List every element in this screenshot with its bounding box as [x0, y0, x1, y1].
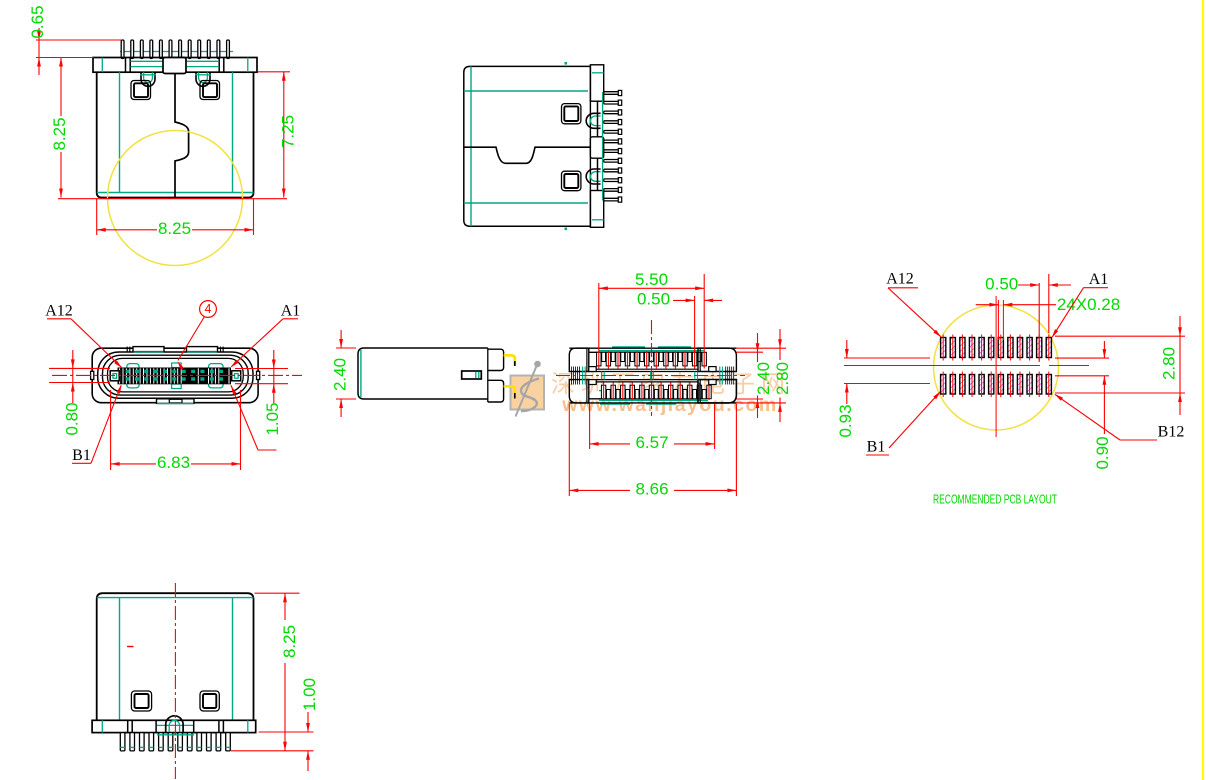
svg-text:4: 4: [205, 302, 212, 316]
svg-text:8.66: 8.66: [635, 480, 668, 499]
rear view: top teal edge tabs: [600, 347, 691, 404]
rear view: left housing block: [569, 348, 596, 403]
top view: yellow construction circle: [108, 131, 243, 266]
top view: center seam line with latch notch: [175, 74, 189, 198]
dimension 2.80 right of rear view: [737, 329, 792, 422]
svg-text:2.80: 2.80: [1159, 347, 1178, 380]
front view: top mounting tabs: [127, 347, 223, 352]
pcb layout: B-row pads (hatched): [941, 372, 1052, 398]
svg-text:7.25: 7.25: [278, 115, 297, 148]
dimension 1.00 right of bottom view: [259, 678, 319, 771]
pcb layout: A-row pads (hatched): [941, 335, 1052, 361]
dimension 8.25 (body height) left of top view: [50, 58, 69, 198]
dimension 0.65 (pin length) left of top view: [28, 5, 121, 75]
dimension 6.83 below front view: [111, 390, 241, 472]
dimension 7.25 right of top view: [258, 72, 298, 198]
top view: shell body outline: [97, 72, 254, 197]
rear view: right housing block: [698, 348, 736, 403]
svg-text:RECOMMENDED PCB LAYOUT: RECOMMENDED PCB LAYOUT: [933, 491, 1057, 506]
top view: left U-latch: [140, 72, 156, 86]
dimension 0.50 above rear view: [637, 290, 722, 352]
svg-text:24X0.28: 24X0.28: [1057, 295, 1120, 314]
pcb label A12 with leader: [886, 271, 941, 338]
rotated top view: teal corner dots: [565, 62, 568, 230]
rear view: red center lines: [556, 320, 745, 416]
top view: teal line through pins: [120, 51, 233, 53]
svg-text:A1: A1: [1089, 271, 1109, 288]
svg-text:B1: B1: [72, 447, 91, 464]
pcb layout: yellow component circle: [934, 305, 1059, 430]
label B1 with leader: [72, 385, 122, 465]
side view: yellow SMT leg bottom: [504, 386, 515, 398]
rear view: bottom comb rail and pins: [569, 383, 736, 403]
svg-text:1.05: 1.05: [263, 402, 282, 435]
pcb layout: red center lines: [844, 296, 1089, 437]
rotated top view: 12 solder pins on right: [604, 90, 622, 202]
rotated top view: right strip column with tabs: [590, 65, 603, 228]
svg-text:8.25: 8.25: [158, 219, 191, 238]
watermark pen stick: [516, 361, 541, 416]
front view: receptacle pin field: [118, 368, 232, 385]
top view: right contact window: [200, 81, 220, 100]
watermark company logo square: [511, 376, 545, 412]
side view: latch detail block: [462, 371, 482, 379]
svg-text:0.65: 0.65: [28, 5, 47, 38]
svg-text:2.80: 2.80: [773, 362, 792, 395]
dimension 8.66 below rear view: [569, 404, 736, 499]
svg-text:0.80: 0.80: [62, 402, 81, 435]
front view: bottom tab: [157, 399, 195, 404]
side view: right flange plates: [488, 348, 504, 402]
top view: teal shell lines: [97, 72, 254, 192]
bottom view: body outline: [97, 593, 254, 720]
side view: yellow SMT leg top: [504, 355, 515, 366]
front view: right side contact: [232, 371, 241, 381]
pcb label B1 with leader: [866, 391, 941, 455]
dimension 24X0.28 pad width: [976, 295, 1120, 340]
watermark chinese text: [551, 371, 791, 398]
dimension 0.93 left of pcb layout: [836, 340, 930, 438]
svg-text:0.50: 0.50: [985, 274, 1018, 293]
rear view: left comb hatch: [572, 367, 586, 385]
svg-text:0.50: 0.50: [637, 290, 670, 309]
svg-text:A12: A12: [886, 271, 914, 288]
svg-text:A1: A1: [281, 303, 301, 320]
top view: left contact window: [131, 81, 151, 100]
svg-text:5.50: 5.50: [635, 270, 668, 289]
pcb label A1 with leader: [1052, 271, 1108, 338]
svg-text:8.25: 8.25: [50, 117, 69, 150]
svg-text:2.40: 2.40: [754, 362, 773, 395]
dimension 8.25 (width) below top view: [58, 199, 287, 238]
dimension 2.40 left of side view: [331, 330, 356, 417]
dimension 0.50 pad pitch: [985, 274, 1071, 362]
svg-text:1.00: 1.00: [300, 678, 319, 711]
rotated top view: U-latches (side): [586, 113, 600, 184]
svg-text:2.40: 2.40: [331, 358, 350, 391]
rear view: mid-band teal ticks: [602, 372, 698, 380]
front view: left side contact: [110, 371, 119, 381]
bottom view: center dome latch: [166, 716, 183, 733]
top view: center tab on strip: [163, 58, 186, 74]
bottom view: small red tick: [127, 646, 134, 648]
dimension 5.50 above rear view: [599, 270, 704, 352]
yellow sheet border line at right edge: [1202, 0, 1204, 780]
svg-text:6.57: 6.57: [635, 433, 668, 452]
svg-text:0.90: 0.90: [1093, 436, 1112, 469]
unlabeled B12 leader bottom-right: [231, 385, 277, 450]
svg-text:B12: B12: [1158, 424, 1185, 441]
dimension 2.40 right of rear view: [737, 333, 773, 418]
dimension 6.57 below rear view: [590, 404, 715, 453]
watermark url text: [561, 394, 777, 416]
side view: body outline: [358, 348, 488, 399]
front view: receptacle teal dome bumps: [127, 363, 223, 389]
rotated top view: teal line through pins: [602, 92, 604, 201]
rear view: right comb hatch: [720, 367, 734, 385]
bottom view: contact windows: [131, 691, 219, 711]
top view: strip teal details: [102, 58, 248, 73]
top view: right U-latch: [195, 72, 211, 86]
pcb label B12 with leader: [1055, 394, 1185, 441]
label A1 with leader: [231, 303, 301, 368]
dimension 2.80 right of pcb layout: [1055, 316, 1185, 415]
rotated top view: body outline: [464, 66, 591, 226]
rear view: middle band lines: [589, 369, 698, 382]
svg-text:6.83: 6.83: [157, 453, 190, 472]
top view: 12 solder pins on top edge: [121, 40, 229, 59]
svg-text:8.25: 8.25: [280, 625, 299, 658]
bottom view: red center line: [174, 583, 176, 779]
rotated top view: contact windows: [562, 104, 581, 191]
rotated top view: center seam with latch notch: [464, 147, 591, 163]
label A12 with leader: [45, 303, 122, 368]
front view: outer shell: [92, 348, 258, 403]
label circled 4 with leader: [178, 301, 217, 370]
rear view: top comb rail and pins: [569, 348, 736, 368]
front view: side notches: [91, 371, 260, 379]
dimension 0.80 left of front view: [49, 350, 110, 436]
bottom view: 12 solder pins: [120, 733, 230, 751]
dimension 0.90 right of pcb layout: [1055, 341, 1112, 470]
dimension 1.05 right of front view: [235, 350, 288, 436]
top view: shell top strip: [93, 58, 257, 73]
bottom view: bottom strip: [92, 720, 256, 732]
rotated top view: teal body lines: [464, 66, 588, 226]
svg-text:A12: A12: [45, 303, 73, 320]
dimension 8.25 right of bottom view: [231, 593, 314, 751]
front view: red center line: [52, 374, 302, 376]
svg-text:B1: B1: [867, 439, 886, 456]
svg-text:0.93: 0.93: [836, 404, 855, 437]
